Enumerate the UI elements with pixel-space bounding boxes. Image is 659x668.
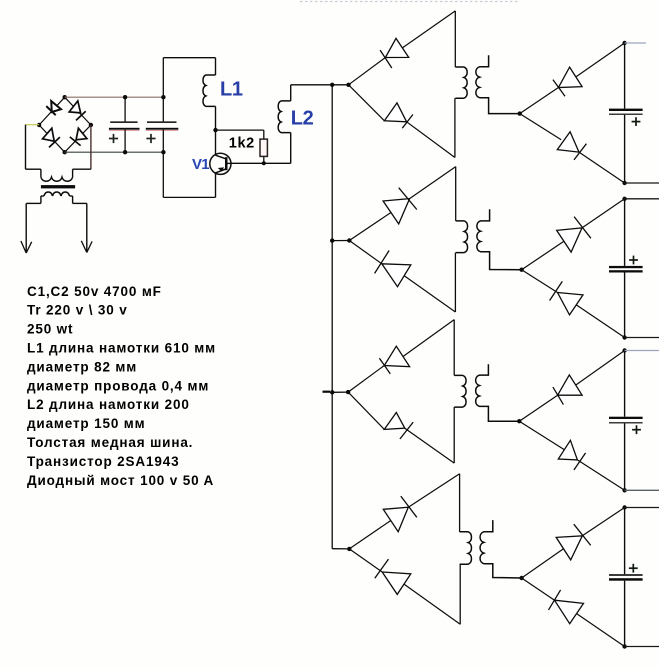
capacitor block2 C4: [609, 256, 643, 273]
svg-text:V1: V1: [192, 156, 209, 173]
diode bridge top-left VD1: [46, 101, 61, 115]
svg-text:Транзистор 2SA1943: Транзистор 2SA1943: [27, 454, 179, 469]
wire block2 right-triangle upper edge: [522, 199, 625, 270]
svg-text:Диодный мост 100 v 50 A: Диодный мост 100 v 50 A: [27, 473, 214, 488]
capacitor block4 C6: [609, 564, 643, 581]
node block2 junction dots: [347, 197, 627, 340]
wire block1 right-triangle lower edge: [520, 114, 625, 183]
transformer Tr primary left lead: [26, 125, 41, 178]
wire bottom run to V1 emitter: [163, 196, 215, 198]
node block1 junction dots: [346, 41, 627, 185]
wire vertical bus: [331, 85, 333, 549]
wire block4 left-triangle lower edge: [349, 549, 460, 624]
wire L1 to collector node: [215, 106, 217, 130]
transformer T1 primary winding: [455, 67, 467, 98]
wire collector stub: [215, 130, 217, 155]
capacitor block1 C3: [609, 109, 643, 126]
wire block2 right-triangle lower edge: [522, 270, 625, 338]
wire block3 left-triangle right side: [453, 320, 455, 464]
wire block2 output stubs: [625, 199, 659, 338]
decorative top dotted line: [300, 1, 520, 3]
node block4 junction dots: [347, 505, 627, 648]
transformer Tr secondary winding: [41, 192, 73, 203]
svg-text:диаметр провода 0,4 мм: диаметр провода 0,4 мм: [27, 378, 209, 393]
wire left node stub (yellowish): [25, 124, 39, 126]
diode block3 D9 (left upper): [379, 346, 409, 374]
diode block4 D16 (right lower): [549, 590, 584, 624]
diode block4 D13 (left upper): [383, 496, 417, 532]
wire base to L2 bottom: [231, 162, 291, 164]
wire L2 bottom lead: [290, 133, 292, 164]
capacitor C1: [109, 97, 140, 152]
diode block4 D14 (left lower): [375, 559, 411, 594]
diode bridge bottom-right VD4: [70, 128, 87, 145]
diode block4 D15 (right upper): [556, 524, 591, 560]
diode bridge bottom-left VD3: [43, 128, 60, 147]
wire L2 to bus and block1 apex: [291, 84, 349, 86]
inductor L1: [203, 75, 216, 106]
transformer Tr primary right lead: [73, 125, 91, 177]
svg-text:диаметр 82 мм: диаметр 82 мм: [27, 359, 137, 374]
wire L1 top lead: [215, 58, 217, 75]
svg-text:L1: L1: [220, 78, 243, 100]
wire block1 output column: [624, 43, 626, 183]
wire bus to block4 apex: [332, 548, 349, 550]
wire top rail (bridge + to C1 C2): [65, 96, 164, 98]
diode block2 D8 (right lower): [550, 281, 583, 315]
wire bridge diamond edges: [39, 97, 91, 152]
wire block1 left-triangle right side: [454, 11, 456, 158]
wire bus to block3 apex: [332, 391, 348, 393]
wire block4 left-triangle right side: [459, 474, 462, 625]
wire L2 top lead: [290, 85, 292, 101]
diode block3 D10 (left lower): [384, 413, 413, 440]
inductor L2: [278, 101, 291, 133]
transformer T3 primary winding: [454, 375, 466, 407]
transformer T3 secondary winding: [476, 364, 520, 421]
wire block1 right-triangle upper edge: [520, 43, 625, 114]
noise dash near text block: [323, 391, 331, 393]
svg-text:Tr 220 v \ 30 v: Tr 220 v \ 30 v: [27, 303, 128, 318]
diode block2 D7 (right upper): [557, 217, 591, 253]
svg-text:L2: L2: [291, 107, 314, 129]
wire block1 output stubs: [625, 43, 659, 183]
wire bottom rail (bridge - to C1 C2): [65, 151, 164, 153]
wire block2 left-triangle lower edge: [349, 241, 455, 313]
wire left vertical (C2 branch): [162, 58, 164, 198]
svg-text:1k2: 1k2: [229, 136, 255, 152]
wire collector node to resistor top: [216, 129, 264, 131]
node bridge junction dots: [37, 95, 93, 154]
transformer T4 secondary winding: [480, 520, 522, 578]
wire block1 left-triangle upper edge: [349, 11, 456, 85]
wire block4 output column: [624, 508, 626, 647]
diode bridge top-right VD2: [69, 101, 86, 121]
label L2: [291, 107, 314, 129]
node bus top junction: [330, 83, 334, 87]
wire block3 right-triangle lower edge: [519, 421, 624, 490]
transformer Tr primary winding: [41, 177, 73, 181]
diode block1 D4 (right lower): [557, 132, 586, 160]
diode block1 D3 (right upper): [553, 67, 582, 96]
node resistor-base junction: [262, 161, 266, 165]
wire block3 left-triangle lower edge: [348, 392, 454, 463]
wire block1 left-triangle lower edge: [349, 85, 455, 158]
transformer T4 primary winding: [460, 532, 472, 564]
wire block2 output column: [624, 199, 626, 338]
wire block3 right-triangle upper edge: [519, 351, 624, 422]
svg-text:C1,C2 50v 4700 мF: C1,C2 50v 4700 мF: [27, 284, 162, 299]
diode block1 D1 (left upper): [380, 38, 409, 68]
diode block3 D11 (right upper): [553, 375, 582, 405]
capacitor block3 C5: [609, 417, 643, 434]
svg-text:диаметр 150 мм: диаметр 150 мм: [27, 416, 145, 431]
node block3 junction dots: [346, 348, 627, 492]
wire block3 output stubs: [625, 351, 659, 491]
transformer Tr secondary left lead with arrow: [21, 203, 41, 253]
label V1: [192, 156, 209, 173]
node rail junction dots: [123, 95, 166, 154]
transformer T1 secondary winding: [476, 55, 520, 113]
transformer T2 secondary winding: [477, 209, 522, 270]
transistor V1: [210, 153, 231, 174]
transformer T2 primary winding: [456, 221, 468, 253]
diode block1 D2 (left lower): [384, 103, 413, 128]
wire block4 output stubs: [625, 508, 659, 647]
wire block3 left-triangle upper edge: [348, 320, 454, 393]
text component list: [27, 284, 216, 488]
svg-text:L2 длина намотки 200: L2 длина намотки 200: [27, 397, 190, 412]
wire emitter lead: [215, 173, 217, 197]
wire block4 right-triangle upper edge: [522, 508, 625, 579]
wire top run to L1: [163, 57, 215, 59]
label L1: [220, 78, 243, 100]
wire block3 output column: [624, 351, 626, 491]
svg-text:Толстая медная шина.: Толстая медная шина.: [27, 435, 193, 450]
transformer Tr core bar: [41, 185, 75, 188]
wire block4 left-triangle upper edge: [349, 474, 459, 549]
wire block4 right-triangle lower edge: [522, 578, 625, 647]
svg-text:250 wt: 250 wt: [27, 322, 73, 337]
transformer Tr secondary right lead with arrow: [73, 203, 93, 252]
wire block2 left-triangle right side: [454, 167, 456, 312]
resistor 1k2: [260, 130, 267, 163]
diode block3 D12 (right lower): [558, 440, 585, 470]
svg-text:L1 длина намотки 610 мм: L1 длина намотки 610 мм: [27, 341, 216, 356]
capacitor C2: [146, 121, 179, 143]
wire bus to block2 apex: [332, 240, 349, 242]
diode block2 D5 (left upper): [383, 188, 417, 224]
diode block2 D6 (left lower): [375, 251, 411, 287]
node bus junction dots: [330, 238, 334, 394]
label 1k2: [229, 136, 255, 152]
node collector junction: [213, 128, 217, 132]
wire block2 left-triangle upper edge: [349, 167, 455, 241]
